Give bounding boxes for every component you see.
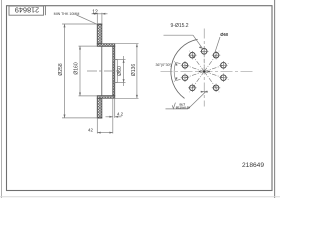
svg-text:42: 42 (88, 128, 93, 133)
svg-text:Ø136: Ø136 (131, 64, 137, 76)
svg-text:Ø60: Ø60 (220, 32, 229, 37)
svg-text:12: 12 (92, 9, 98, 15)
svg-text:Ø160: Ø160 (73, 62, 79, 74)
svg-text:4.2: 4.2 (117, 111, 124, 116)
svg-text:36°(0°30′): 36°(0°30′) (156, 63, 172, 67)
svg-text:Ø258: Ø258 (58, 63, 64, 75)
svg-text:218649: 218649 (15, 6, 39, 15)
svg-text:9-Ø15.2: 9-Ø15.2 (171, 23, 189, 29)
svg-text:Ø60: Ø60 (117, 66, 123, 76)
svg-text:Ø110±0.05: Ø110±0.05 (176, 106, 191, 110)
svg-text:218649: 218649 (242, 162, 264, 169)
svg-text:MIN THK 10MM: MIN THK 10MM (54, 12, 80, 16)
